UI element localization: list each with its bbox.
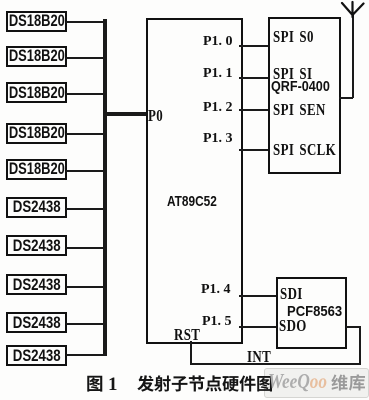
wire DS2438 #8 to P0 bus: [66, 286, 105, 288]
pin label P1.3: [203, 131, 233, 147]
wire DS2438 #7 to P0 bus: [66, 247, 105, 249]
chip name QRF-0400: [271, 78, 341, 96]
chip name AT89C52: [167, 193, 230, 211]
wire INT vertical to RST: [190, 341, 192, 364]
sensor block DS2438 #9: [6, 312, 67, 333]
wire DS18B20 #2 to P0 bus: [66, 57, 105, 59]
sensor block DS18B20 #1: [6, 11, 67, 32]
wire P1.3 to SPI SCLK: [239, 149, 268, 151]
wire DS18B20 #3 to P0 bus: [66, 93, 105, 95]
wire DS18B20 #5 to P0 bus: [66, 170, 105, 172]
RF module block QRF-0400: [268, 17, 341, 174]
P0 bus stub to AT89C52: [105, 112, 147, 116]
watermark WeeQoo: [268, 369, 340, 394]
wire INT from PCF8563 right side: [346, 326, 361, 328]
wire P1.2 to SPI SEN: [239, 109, 268, 111]
pin label P1.1: [203, 66, 233, 82]
pin label SDO: [279, 316, 315, 336]
pin label RST: [174, 325, 209, 345]
RTC block PCF8563: [276, 277, 347, 349]
pin label SDI: [280, 284, 310, 304]
MCU block AT89C52: [146, 18, 243, 344]
pin label SPI SEN: [273, 100, 342, 120]
antenna feed wire horizontal: [339, 97, 353, 99]
wire INT vertical right: [359, 326, 361, 365]
pin label SPI S0: [273, 27, 327, 47]
sensor block DS18B20 #4: [6, 123, 67, 144]
wire P1.1 to SPI SI: [239, 77, 268, 79]
sensor block DS2438 #7: [6, 235, 67, 256]
pin label P1.5: [202, 314, 232, 330]
net label INT: [247, 347, 279, 367]
sensor block DS18B20 #5: [6, 159, 67, 180]
wire P1.0 to SPI S0: [239, 45, 268, 47]
watermark 维库: [331, 372, 369, 394]
antenna feed wire vertical: [352, 15, 354, 98]
wire DS2438 #9 to P0 bus: [66, 323, 105, 325]
sensor block DS2438 #6: [6, 197, 67, 218]
wire DS18B20 #1 to P0 bus: [66, 21, 105, 23]
pin label P0: [148, 106, 168, 126]
sensor block DS18B20 #3: [6, 82, 67, 103]
wire DS18B20 #4 to P0 bus: [66, 133, 105, 135]
P0 bus (vertical): [103, 19, 107, 356]
wire P1.5 to SDO: [239, 326, 276, 328]
pin label P1.4: [201, 282, 231, 298]
pin label SPI SCLK: [273, 140, 356, 160]
chip name PCF8563: [287, 303, 350, 321]
pin label SPI SI: [273, 64, 325, 84]
pin label P1.0: [203, 34, 233, 50]
wire INT horizontal bottom: [190, 363, 361, 365]
wire P1.4 to SDI: [239, 295, 276, 297]
pin label P1.2: [203, 100, 233, 116]
wire DS2438 #6 to P0 bus: [66, 208, 105, 210]
sensor block DS2438 #10: [6, 345, 67, 366]
sensor block DS18B20 #2: [6, 46, 67, 67]
svg-text:1: 1: [108, 374, 118, 395]
watermark background: [264, 368, 369, 398]
antenna symbol: [340, 0, 366, 18]
wire DS2438 #10 to P0 bus: [66, 354, 105, 356]
sensor block DS2438 #8: [6, 274, 67, 295]
caption: 图 1 发射子节点硬件图: [82, 369, 288, 397]
